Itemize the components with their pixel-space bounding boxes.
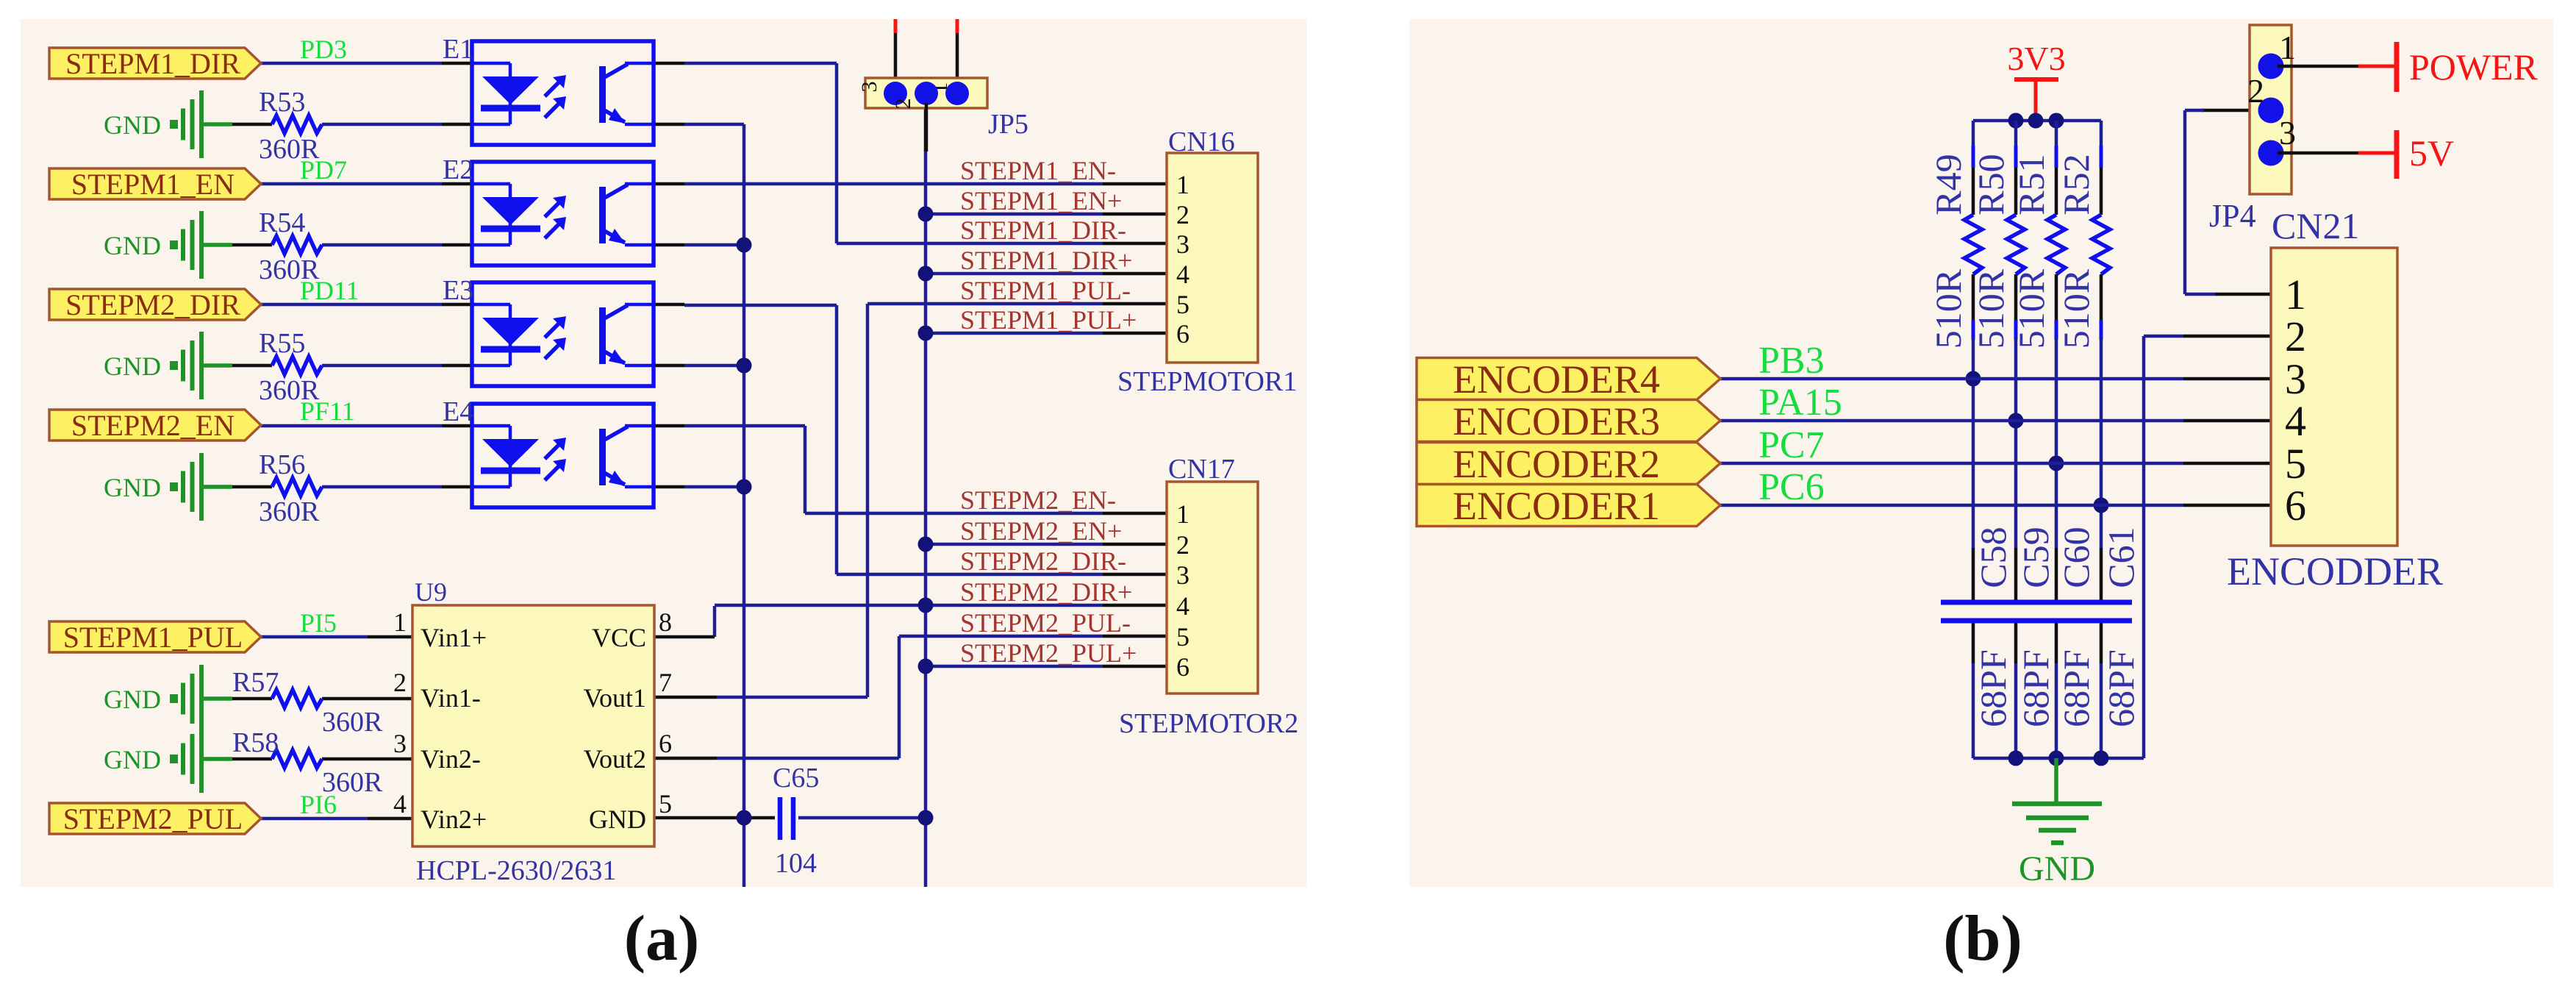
svg-text:R53: R53 xyxy=(259,87,305,118)
svg-text:STEPM2_PUL: STEPM2_PUL xyxy=(63,802,243,835)
svg-text:R52: R52 xyxy=(2056,154,2097,215)
svg-text:104: 104 xyxy=(775,848,817,879)
svg-text:STEPM2_PUL+: STEPM2_PUL+ xyxy=(960,638,1137,668)
svg-text:R57: R57 xyxy=(232,667,279,698)
svg-text:Vout2: Vout2 xyxy=(584,744,646,774)
svg-text:3: 3 xyxy=(2285,355,2306,403)
svg-text:GND: GND xyxy=(104,231,161,260)
svg-text:510R: 510R xyxy=(1928,268,1969,349)
svg-text:E1: E1 xyxy=(443,34,473,65)
svg-text:5: 5 xyxy=(1176,622,1189,652)
svg-text:R51: R51 xyxy=(2011,154,2052,215)
svg-text:6: 6 xyxy=(1176,652,1189,682)
svg-text:ENCODER3: ENCODER3 xyxy=(1453,399,1660,443)
svg-text:U9: U9 xyxy=(415,577,447,607)
svg-text:STEPM1_EN-: STEPM1_EN- xyxy=(960,156,1116,185)
svg-text:JP4: JP4 xyxy=(2209,198,2256,234)
svg-text:E2: E2 xyxy=(443,154,473,185)
svg-text:5: 5 xyxy=(1176,290,1189,319)
svg-text:GND: GND xyxy=(104,110,161,140)
svg-text:STEPMOTOR2: STEPMOTOR2 xyxy=(1119,708,1298,739)
svg-text:STEPM2_PUL-: STEPM2_PUL- xyxy=(960,608,1131,638)
svg-text:1: 1 xyxy=(1176,170,1189,199)
svg-text:1: 1 xyxy=(2285,271,2306,318)
svg-text:GND: GND xyxy=(589,805,646,834)
svg-text:4: 4 xyxy=(2285,397,2306,445)
svg-text:C58: C58 xyxy=(1972,527,2014,588)
svg-text:5V: 5V xyxy=(2409,132,2454,174)
svg-text:PD3: PD3 xyxy=(300,35,347,64)
svg-text:8: 8 xyxy=(659,607,672,637)
svg-text:1: 1 xyxy=(393,607,407,637)
svg-text:PI5: PI5 xyxy=(300,608,337,638)
svg-text:STEPM2_EN+: STEPM2_EN+ xyxy=(960,516,1122,546)
svg-text:R58: R58 xyxy=(232,727,279,758)
svg-text:ENCODDER: ENCODDER xyxy=(2227,549,2443,593)
svg-text:6: 6 xyxy=(1176,319,1189,349)
svg-text:4: 4 xyxy=(1176,260,1189,289)
svg-text:R49: R49 xyxy=(1928,154,1969,215)
svg-text:PB3: PB3 xyxy=(1759,340,1825,382)
svg-text:Vin2+: Vin2+ xyxy=(421,805,487,834)
svg-text:5: 5 xyxy=(659,789,672,819)
svg-text:Vout1: Vout1 xyxy=(584,683,646,713)
svg-text:STEPM1_PUL-: STEPM1_PUL- xyxy=(960,276,1131,305)
svg-text:R50: R50 xyxy=(1970,154,2011,215)
svg-text:68PF: 68PF xyxy=(2056,649,2097,727)
svg-text:3: 3 xyxy=(1176,560,1189,590)
svg-text:STEPM1_PUL+: STEPM1_PUL+ xyxy=(960,305,1137,335)
svg-text:4: 4 xyxy=(393,789,407,819)
svg-text:VCC: VCC xyxy=(592,623,646,652)
svg-text:2: 2 xyxy=(393,668,407,697)
svg-text:POWER: POWER xyxy=(2409,46,2539,88)
svg-text:C60: C60 xyxy=(2056,527,2097,588)
svg-text:3: 3 xyxy=(1176,229,1189,259)
svg-text:(a): (a) xyxy=(624,903,700,974)
svg-text:1: 1 xyxy=(2279,29,2296,66)
svg-text:Vin2-: Vin2- xyxy=(421,744,481,774)
svg-text:C59: C59 xyxy=(2015,527,2056,588)
svg-text:C65: C65 xyxy=(773,763,819,793)
svg-text:PC6: PC6 xyxy=(1759,466,1825,508)
svg-text:CN21: CN21 xyxy=(2272,205,2359,246)
svg-text:STEPM1_EN: STEPM1_EN xyxy=(71,168,235,201)
svg-text:E3: E3 xyxy=(443,275,473,306)
svg-text:STEPM1_DIR: STEPM1_DIR xyxy=(65,47,240,80)
svg-text:STEPM1_EN+: STEPM1_EN+ xyxy=(960,186,1122,215)
svg-text:510R: 510R xyxy=(2011,268,2052,349)
svg-text:510R: 510R xyxy=(2056,268,2097,349)
svg-text:STEPM2_EN-: STEPM2_EN- xyxy=(960,485,1116,515)
svg-text:ENCODER1: ENCODER1 xyxy=(1453,484,1660,528)
svg-text:2: 2 xyxy=(1176,530,1189,560)
svg-text:360R: 360R xyxy=(259,254,320,285)
svg-text:PC7: PC7 xyxy=(1759,424,1825,466)
svg-text:3: 3 xyxy=(2279,114,2296,151)
svg-text:JP5: JP5 xyxy=(988,109,1028,140)
svg-text:68PF: 68PF xyxy=(2015,649,2056,727)
svg-text:GND: GND xyxy=(104,473,161,502)
svg-text:GND: GND xyxy=(104,745,161,774)
svg-text:CN17: CN17 xyxy=(1168,454,1235,485)
svg-text:STEPM2_EN: STEPM2_EN xyxy=(71,409,235,442)
svg-text:PA15: PA15 xyxy=(1759,382,1842,424)
svg-text:R54: R54 xyxy=(259,207,305,238)
svg-text:STEPMOTOR1: STEPMOTOR1 xyxy=(1117,366,1297,397)
svg-text:STEPM2_DIR: STEPM2_DIR xyxy=(65,288,240,321)
svg-text:510R: 510R xyxy=(1970,268,2011,349)
svg-text:360R: 360R xyxy=(322,707,383,738)
svg-text:3V3: 3V3 xyxy=(2007,40,2065,77)
svg-text:2: 2 xyxy=(1176,200,1189,229)
svg-text:CN16: CN16 xyxy=(1168,126,1235,157)
svg-text:2: 2 xyxy=(891,99,915,110)
svg-text:STEPM1_DIR-: STEPM1_DIR- xyxy=(960,215,1126,245)
svg-text:4: 4 xyxy=(1176,591,1189,621)
svg-text:360R: 360R xyxy=(259,134,320,165)
svg-text:Vin1+: Vin1+ xyxy=(421,623,487,652)
svg-text:2: 2 xyxy=(2247,72,2264,110)
svg-text:68PF: 68PF xyxy=(2100,649,2142,727)
svg-text:6: 6 xyxy=(659,729,672,758)
svg-text:7: 7 xyxy=(659,668,672,697)
svg-text:360R: 360R xyxy=(259,375,320,406)
svg-text:STEPM1_PUL: STEPM1_PUL xyxy=(63,621,243,654)
svg-text:C61: C61 xyxy=(2100,527,2142,588)
svg-text:R55: R55 xyxy=(259,328,305,359)
svg-text:360R: 360R xyxy=(322,767,383,798)
svg-text:Vin1-: Vin1- xyxy=(421,683,481,713)
svg-text:360R: 360R xyxy=(259,496,320,527)
svg-text:6: 6 xyxy=(2285,482,2306,529)
svg-text:ENCODER4: ENCODER4 xyxy=(1453,357,1660,402)
svg-text:GND: GND xyxy=(104,685,161,714)
svg-text:R56: R56 xyxy=(259,449,305,480)
svg-text:STEPM2_DIR+: STEPM2_DIR+ xyxy=(960,577,1132,607)
svg-text:ENCODER2: ENCODER2 xyxy=(1453,442,1660,486)
svg-text:(b): (b) xyxy=(1943,903,2022,974)
svg-text:STEPM1_DIR+: STEPM1_DIR+ xyxy=(960,246,1132,275)
svg-text:2: 2 xyxy=(2285,313,2306,360)
svg-text:E4: E4 xyxy=(443,396,473,427)
svg-text:GND: GND xyxy=(2019,849,2095,888)
svg-text:3: 3 xyxy=(393,729,407,758)
svg-text:HCPL-2630/2631: HCPL-2630/2631 xyxy=(416,855,616,886)
svg-text:1: 1 xyxy=(1176,499,1189,529)
svg-text:3: 3 xyxy=(857,82,881,93)
svg-text:5: 5 xyxy=(2285,440,2306,488)
svg-text:68PF: 68PF xyxy=(1972,649,2014,727)
svg-text:GND: GND xyxy=(104,352,161,381)
svg-text:STEPM2_DIR-: STEPM2_DIR- xyxy=(960,546,1126,576)
